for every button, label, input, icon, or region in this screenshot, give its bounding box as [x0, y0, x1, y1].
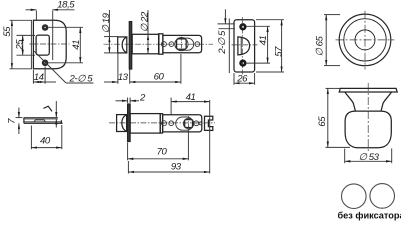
svg-text:13: 13	[118, 72, 129, 83]
dim d22	[140, 10, 151, 54]
dim 41 bottom	[171, 92, 210, 174]
dim 2	[116, 92, 147, 103]
latch bolt head top view	[118, 37, 127, 53]
svg-text:2-∅ 5: 2-∅ 5	[69, 74, 94, 85]
strike plate outline	[234, 20, 255, 72]
strike box flange line	[228, 19, 230, 74]
strike vertical centerline	[241, 17, 243, 75]
profile plate surface	[24, 121, 62, 123]
strike screw hole bottom	[241, 61, 246, 66]
profile right end	[60, 120, 62, 123]
svg-text:40: 40	[40, 135, 51, 146]
faceplate front view outline	[33, 20, 66, 69]
dim 1	[43, 101, 56, 128]
svg-text:60: 60	[154, 72, 165, 83]
dim 40	[31, 125, 61, 149]
screw hole bottom	[42, 60, 49, 67]
housing hole 4 bottom	[199, 122, 202, 125]
profile bump	[34, 120, 46, 122]
cam fork bottom view	[205, 116, 213, 130]
dim d19	[101, 10, 118, 53]
svg-text:∅ 22: ∅ 22	[140, 11, 151, 32]
option circle left	[342, 184, 367, 209]
knob side centerline	[367, 83, 369, 152]
knob side neck	[345, 92, 392, 111]
dim 41 strike	[246, 26, 270, 63]
svg-text:18,5: 18,5	[57, 0, 75, 10]
knob front view circles	[339, 14, 391, 66]
hidden line through plate	[52, 11, 54, 61]
dim d53	[345, 149, 392, 164]
dim 13 and 60	[104, 53, 181, 84]
svg-text:57: 57	[273, 46, 284, 57]
option circle right	[370, 184, 395, 209]
knob side rose	[339, 88, 397, 92]
housing hole 2 bottom	[169, 121, 174, 126]
svg-text:2-∅ 5: 2-∅ 5	[217, 30, 228, 55]
housing hole 3 top	[195, 42, 200, 47]
profile view top edge	[24, 117, 58, 119]
spindle vertical centerline bottom	[188, 116, 190, 131]
latch faceplate edge top view	[129, 22, 131, 69]
housing hole 1 bottom	[162, 121, 167, 126]
housing hole 2 top	[169, 42, 174, 47]
knob front crosshair	[336, 11, 395, 70]
latch housing top view	[163, 35, 202, 52]
housing hole 1 top	[161, 42, 166, 47]
dim 18.5	[26, 0, 76, 21]
svg-text:2: 2	[139, 92, 146, 103]
spindle square bottom	[185, 120, 193, 128]
dim 25	[15, 35, 36, 55]
profile left tab	[23, 118, 25, 124]
dim 7	[7, 108, 23, 135]
svg-text:без фиксатора: без фиксатора	[338, 210, 401, 220]
svg-text:∅ 65: ∅ 65	[315, 35, 326, 56]
spindle slot bottom	[176, 117, 194, 130]
spindle slot top	[175, 38, 194, 50]
latch top view centerline	[104, 43, 214, 45]
spindle circle bottom	[183, 118, 193, 128]
latch bolt head bottom view	[117, 115, 127, 132]
latch barrel top view	[132, 34, 159, 54]
strike latch opening	[238, 37, 250, 55]
dim 14	[33, 67, 56, 84]
faceplate folded lip line	[30, 20, 32, 69]
svg-text:65: 65	[317, 116, 328, 127]
latch barrel bottom view	[130, 114, 160, 134]
faceplate cutout	[36, 35, 49, 55]
spindle square top	[177, 39, 187, 49]
svg-text:55: 55	[2, 26, 13, 37]
svg-text:41: 41	[71, 40, 82, 50]
screw hole top	[42, 24, 49, 31]
svg-text:93: 93	[171, 161, 182, 172]
dim 65 knob	[317, 88, 350, 147]
spindle vertical centerline top	[180, 37, 182, 52]
svg-text:25: 25	[15, 39, 26, 51]
svg-text:∅ 53: ∅ 53	[359, 152, 380, 163]
svg-text:14: 14	[34, 72, 44, 83]
dim 70	[128, 130, 189, 160]
latch housing collar top view	[159, 34, 163, 54]
dim d65	[315, 15, 341, 66]
dim 26 strike	[234, 73, 255, 85]
knob side ball	[345, 111, 391, 148]
dim 57 strike	[256, 20, 284, 72]
plate horizontal centerline	[30, 43, 70, 45]
dim 41 plate	[49, 27, 84, 63]
svg-text:41: 41	[186, 92, 196, 103]
profile plate bottom	[24, 122, 63, 124]
profile wall inner line	[25, 118, 58, 120]
dim 93	[128, 161, 209, 174]
svg-text:26: 26	[236, 74, 248, 85]
svg-text:∅ 19: ∅ 19	[101, 12, 112, 33]
dim 2-d5 strike	[217, 9, 235, 55]
svg-text:7: 7	[7, 118, 18, 124]
dim 55	[2, 20, 32, 69]
latch bottom view centerline	[109, 122, 215, 124]
spindle circle top	[175, 38, 188, 51]
leader 2-d5	[34, 51, 93, 84]
latch housing bottom view	[163, 115, 202, 132]
housing hole 3 bottom	[194, 121, 199, 126]
svg-text:70: 70	[157, 147, 168, 158]
svg-text:41: 41	[258, 36, 269, 46]
strike screw hole top	[241, 24, 246, 29]
latch faceplate edge bottom view	[128, 104, 131, 142]
strike horizontal centerline	[232, 44, 258, 46]
latch housing collar bottom view	[160, 114, 162, 133]
